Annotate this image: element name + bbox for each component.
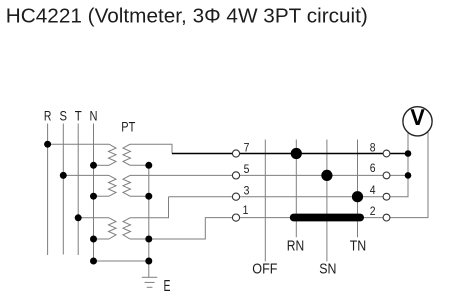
wire terminal4 to meter bus	[390, 132, 408, 196]
junction dot common2	[145, 193, 152, 200]
switch contact dot SN line5	[321, 170, 332, 181]
svg-text:5: 5	[244, 164, 250, 176]
wire line1 feed from common	[149, 218, 233, 239]
transformer PT1 primary coil	[109, 144, 117, 165]
junction dot R	[44, 141, 51, 148]
svg-text:1: 1	[243, 205, 249, 217]
svg-text:PT: PT	[121, 120, 135, 135]
junction dot meter bus line6	[405, 172, 412, 179]
junction dot common3	[145, 236, 152, 243]
svg-text:RN: RN	[287, 237, 304, 254]
svg-text:2: 2	[370, 206, 376, 218]
wire secondary common bus	[148, 165, 150, 261]
wire switch column SN	[326, 140, 328, 262]
terminal 1	[232, 214, 239, 221]
svg-text:R: R	[44, 109, 52, 124]
wire PT2 primary bottom	[94, 195, 110, 197]
ground bar1	[142, 276, 157, 278]
wire PT1 primary top	[48, 143, 109, 145]
wire switch column RN	[295, 140, 297, 238]
wire N line	[93, 124, 95, 262]
junction dot common4 ground	[145, 258, 152, 265]
ground stub	[148, 261, 150, 277]
wire terminal2 to meter right	[390, 131, 428, 217]
wire line 5-6	[130, 174, 383, 176]
switch contact dot TN line3	[352, 191, 363, 202]
junction dot common1	[145, 162, 152, 169]
terminal 3	[232, 193, 239, 200]
junction dot T	[75, 214, 82, 221]
svg-text:3: 3	[244, 186, 250, 198]
wire PT2 primary top	[63, 174, 109, 176]
wire R line	[47, 124, 49, 256]
wire PT1 secondary bottom	[130, 164, 149, 166]
terminal 2	[383, 214, 390, 221]
svg-text:8: 8	[370, 142, 376, 154]
switch contact dot RN line7	[291, 148, 302, 159]
svg-text:N: N	[90, 109, 98, 124]
wire line 7-8 thick	[172, 153, 408, 155]
junction dot N4	[90, 258, 97, 265]
junction dot N1	[90, 162, 97, 169]
wire T line	[77, 124, 79, 256]
wire PT3 secondary top jog up to line3	[130, 197, 169, 218]
wire switch column OFF	[264, 140, 266, 262]
voltmeter U1 V label	[411, 109, 425, 125]
terminal 8	[383, 150, 390, 157]
wire PT3 secondary bottom	[130, 238, 149, 240]
wire switch column TN	[357, 140, 359, 238]
transformer PT2 secondary coil	[123, 175, 131, 196]
svg-text:4: 4	[370, 185, 376, 197]
ground bar3	[147, 286, 153, 288]
svg-text:SN: SN	[319, 261, 336, 278]
wire S line	[62, 124, 64, 255]
svg-text:T: T	[75, 109, 82, 124]
wire PT1 primary bottom	[94, 164, 110, 166]
transformer PT1 secondary coil	[123, 144, 131, 165]
svg-text:HC4221 (Voltmeter, 3Φ 4W 3PT c: HC4221 (Voltmeter, 3Φ 4W 3PT circuit)	[6, 6, 368, 28]
wire terminal6 to meter bus	[390, 174, 408, 176]
ground bar2	[145, 281, 155, 283]
transformer PT3 primary coil	[109, 218, 117, 239]
wire line 3-4	[169, 196, 383, 198]
junction dot N2	[90, 193, 97, 200]
junction dot N3	[90, 236, 97, 243]
svg-text:E: E	[164, 278, 171, 295]
terminal 4	[383, 193, 390, 200]
switch common bar	[290, 214, 364, 222]
wire terminal8 to meter bus	[390, 153, 408, 155]
wire neutral bottom bus	[94, 260, 149, 262]
wire PT1 secondary top jog	[130, 144, 172, 153]
terminal 7	[232, 150, 239, 157]
svg-text:TN: TN	[350, 237, 367, 254]
wire PT3 primary top	[78, 217, 109, 219]
svg-text:OFF: OFF	[252, 261, 277, 278]
svg-text:S: S	[60, 109, 68, 124]
junction dot meter bus line8	[405, 150, 412, 157]
svg-text:6: 6	[370, 163, 376, 175]
transformer PT3 secondary coil	[123, 218, 131, 239]
transformer PT2 primary coil	[109, 175, 117, 196]
terminal 6	[383, 172, 390, 179]
wire line 1-2 right	[240, 217, 383, 219]
wire PT3 primary bottom	[94, 238, 110, 240]
wire PT2 secondary bottom	[130, 195, 149, 197]
svg-text:7: 7	[244, 142, 250, 154]
junction dot S	[60, 172, 67, 179]
terminal 5	[232, 172, 239, 179]
voltmeter U1 circle	[403, 107, 432, 136]
